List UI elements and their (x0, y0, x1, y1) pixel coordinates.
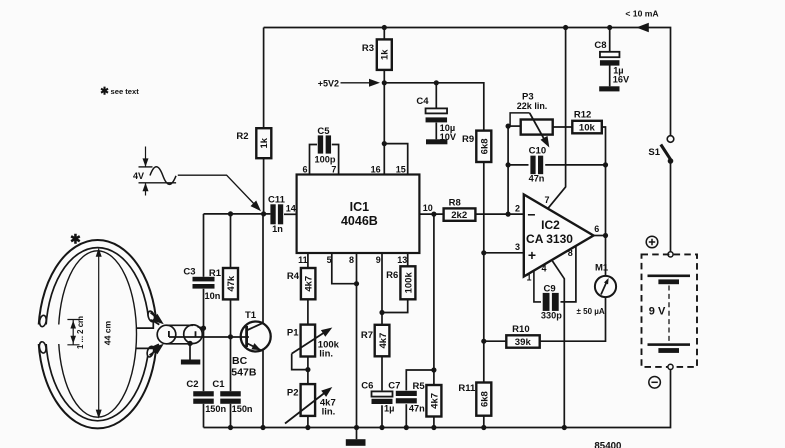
junction R3 rail (382, 25, 387, 30)
svg-text:85400: 85400 (594, 441, 621, 448)
wire C2 to bottom rail (203, 404, 205, 428)
search coil tube inner wall (46, 248, 150, 421)
svg-text:C9: C9 (544, 283, 556, 294)
wire R11 to bottom rail (483, 416, 485, 428)
svg-text:47n: 47n (409, 404, 425, 414)
wire R10 left (484, 340, 507, 342)
svg-text:6: 6 (302, 165, 307, 175)
capacitor C11 (270, 204, 275, 224)
potentiometer P1 (301, 325, 316, 357)
svg-text:1k: 1k (259, 137, 270, 148)
svg-text:3: 3 (515, 242, 520, 252)
coil left upper tube end cap (39, 315, 47, 327)
svg-text:see text: see text (111, 87, 140, 96)
resistor R12 (572, 121, 602, 134)
junction R11 rail (481, 425, 486, 430)
junction P2 rail (305, 425, 310, 430)
cable shield ground stub (189, 343, 191, 359)
capacitor C6 (electrolytic) (372, 391, 393, 396)
capacitor C7 (396, 391, 417, 396)
switch S1 (667, 136, 674, 143)
wire IC1 pin 10 to R8 (419, 213, 443, 215)
svg-text:8: 8 (568, 248, 573, 258)
svg-text:R1: R1 (209, 268, 222, 279)
ground (main) stub (356, 428, 358, 440)
junction pin15/16 tee (382, 141, 387, 146)
svg-text:C10: C10 (529, 145, 546, 156)
svg-text:10k: 10k (579, 123, 596, 134)
capacitor C2 (193, 391, 214, 396)
cable shield to C3 column (198, 327, 204, 328)
IC1 4046B (297, 175, 420, 254)
svg-text:2: 2 (515, 204, 520, 214)
wire R12 right down to output (602, 127, 606, 236)
wire C11 to IC1 pin 14 (284, 213, 297, 215)
node A horizontal wire (C3/R1 top to C11) (204, 213, 271, 215)
capacitor C5 bracket (310, 145, 339, 175)
junction pin3 (481, 250, 486, 255)
junction base node (228, 334, 233, 339)
svg-text:7: 7 (544, 195, 549, 205)
svg-text:150n: 150n (205, 404, 226, 414)
bottom ground rail (204, 427, 670, 429)
junction pin7 rail (563, 25, 568, 30)
wire R9 column down (483, 162, 485, 383)
+5V2 label and arrow (341, 82, 370, 84)
junction pin10 / R5 column (431, 212, 436, 217)
IC1 pin 5 wire (332, 253, 357, 284)
capacitor C4 (electrolytic) (426, 108, 448, 113)
wire C3 to shield node (203, 289, 205, 328)
wire battery to bottom rail (669, 370, 671, 428)
capacitor C3 (193, 277, 215, 282)
svg-text:C8: C8 (594, 40, 606, 51)
svg-text:1 ... 2 cm: 1 ... 2 cm (76, 316, 85, 349)
svg-text:P1: P1 (287, 328, 299, 339)
svg-text:4k7: 4k7 (378, 333, 389, 349)
svg-text:R5: R5 (413, 381, 426, 392)
junction C10 left (506, 162, 511, 167)
resistor R6 (400, 266, 415, 299)
svg-text:6: 6 (594, 224, 599, 234)
junction pin8 rail (354, 425, 359, 430)
svg-text:C7: C7 (388, 381, 400, 392)
svg-text:10: 10 (423, 203, 433, 213)
svg-text:15: 15 (396, 165, 406, 175)
resistor R9 (476, 131, 491, 162)
svg-text:± 50 µA: ± 50 µA (577, 307, 605, 316)
junction R10 left (481, 339, 486, 344)
svg-text:C3: C3 (183, 267, 195, 278)
wire P2 to bottom rail (307, 416, 309, 428)
wire C8 to ground (609, 65, 611, 86)
junction C6 rail (379, 425, 384, 430)
svg-text:C5: C5 (317, 126, 330, 137)
junction C8 rail (607, 25, 612, 30)
wire R2 column top (263, 28, 265, 129)
resistor R8 (444, 208, 476, 220)
junction +5V2 node (382, 80, 387, 85)
cable shield cylinder (167, 325, 194, 344)
svg-text:4k7: 4k7 (430, 393, 441, 409)
svg-text:lin.: lin. (319, 349, 333, 360)
resistor R1 (223, 268, 238, 299)
junction T1 emitter rail (260, 425, 265, 430)
svg-text:4046B: 4046B (341, 214, 378, 228)
svg-text:1: 1 (526, 273, 531, 283)
svg-text:330p: 330p (541, 311, 562, 321)
wire output to meter (605, 236, 607, 277)
svg-text:4k7: 4k7 (304, 276, 315, 292)
svg-text:44 cm: 44 cm (103, 320, 113, 345)
coil left lower tube end cap (39, 341, 47, 353)
svg-text:9 V: 9 V (649, 306, 666, 318)
resistor R3 (377, 39, 392, 70)
svg-text:R2: R2 (236, 131, 248, 142)
junction output node (603, 233, 608, 238)
coil inner winding lower connection (136, 347, 153, 348)
svg-text:4V: 4V (133, 171, 144, 181)
4V waveform annotation (145, 147, 147, 196)
wire P3 column (pin2 up to wiper) (507, 126, 509, 214)
op-amp IC2 triangle (524, 195, 594, 277)
svg-text:14: 14 (286, 203, 296, 213)
svg-text:22k lin.: 22k lin. (517, 101, 548, 111)
coil lower lead into cable (150, 347, 161, 356)
coil inner winding upper connection (136, 320, 153, 329)
coil upper lead into cable (151, 313, 162, 322)
resistor R11 (476, 383, 491, 416)
wire C6 to bottom rail (381, 405, 383, 427)
capacitor C7 branch (406, 370, 434, 390)
resistor R4 (301, 268, 316, 299)
wire pin10 column down to C7/R5 (433, 214, 435, 385)
svg-text:CA 3130: CA 3130 (526, 232, 573, 246)
svg-text:C4: C4 (416, 96, 429, 107)
junction pin9/R6 (379, 310, 384, 315)
svg-text:547B: 547B (231, 367, 257, 379)
ground (cable shield) (181, 360, 200, 365)
svg-text:IC1: IC1 (350, 200, 370, 214)
coil right lower tube end cap (146, 345, 155, 357)
wire C10 right to output column (545, 164, 605, 166)
current arrow < 10 mA (636, 23, 649, 32)
svg-text:+: + (528, 247, 536, 263)
junction P1/P2 (305, 367, 310, 372)
meter M1 (595, 276, 616, 297)
svg-text:39k: 39k (515, 337, 532, 348)
capacitor C9 (543, 293, 550, 311)
svg-text:R6: R6 (386, 270, 398, 281)
ground (C4) (426, 139, 447, 144)
sine wave symbol (150, 167, 176, 185)
search coil outer tube (38, 240, 156, 428)
battery plus terminal symbol (646, 236, 658, 248)
battery minus terminal symbol (649, 377, 661, 389)
potentiometer P3 (508, 125, 521, 127)
dimension 1...2 cm arrow (67, 320, 79, 345)
coil gap right (mask) (141, 317, 162, 351)
wire R1 column (230, 214, 232, 268)
svg-text:✱: ✱ (70, 232, 81, 247)
potentiometer P2 (301, 384, 316, 416)
capacitor C8 wire (609, 28, 611, 52)
svg-text:BC: BC (232, 355, 248, 367)
leader arrow to node A (178, 175, 258, 208)
svg-text:16V: 16V (613, 75, 630, 85)
svg-text:R11: R11 (458, 383, 476, 394)
svg-text:7: 7 (331, 165, 336, 175)
svg-text:11: 11 (298, 255, 308, 265)
wire R3 to +5V2 node and IC1 pin16 (383, 70, 385, 175)
resistor R5 (426, 385, 441, 417)
junction shield ground (187, 341, 192, 346)
junction C1 rail (228, 425, 233, 430)
svg-text:9: 9 (376, 255, 381, 265)
capacitor C5 (318, 135, 323, 153)
svg-text:R3: R3 (362, 43, 374, 54)
wire shield node down to C2 (203, 328, 205, 391)
junction C10/R12 right (603, 162, 608, 167)
IC1 pin 13 wire (407, 253, 409, 266)
wire C1 to bottom rail (230, 404, 232, 428)
svg-text:47n: 47n (529, 173, 545, 183)
svg-text:13: 13 (397, 255, 407, 265)
svg-text:R12: R12 (574, 110, 591, 121)
wire T1 collector up to node A (262, 214, 264, 323)
junction node A (261, 211, 266, 216)
battery open terminal bottom (668, 364, 673, 369)
junction C7/R5 (431, 367, 436, 372)
battery open terminal top (668, 252, 673, 257)
wire R7 to C6 (381, 356, 383, 390)
resistor R2 (256, 128, 271, 158)
battery cell 1 (648, 275, 691, 278)
coil gap left (mask) (30, 325, 63, 345)
wire C10 left (508, 164, 528, 166)
junction pin4 rail (562, 425, 567, 430)
wire C3 column (203, 214, 205, 277)
svg-text:✱: ✱ (100, 86, 109, 98)
battery cell 2 (648, 343, 691, 346)
wire R1 to base node (230, 299, 232, 336)
svg-text:5: 5 (327, 255, 332, 265)
battery 9V dashed box (642, 254, 698, 367)
wire C9 right to pin 8 (561, 246, 576, 302)
svg-text:lin.: lin. (322, 406, 336, 417)
capacitor C8 (electrolytic) (600, 52, 620, 57)
junction pin5/pin8 (354, 281, 359, 286)
svg-text:1n: 1n (272, 224, 283, 234)
ground (C8) (599, 86, 619, 91)
coil lower lead arrow (152, 344, 164, 354)
top supply rail +9V (264, 28, 671, 136)
ground (main) (346, 439, 366, 446)
IC1 pin 9 column (381, 253, 383, 325)
svg-text:−: − (527, 207, 535, 223)
svg-text:6k8: 6k8 (480, 391, 491, 407)
resistor R10 (506, 335, 539, 347)
svg-text:C11: C11 (268, 194, 286, 205)
IC1 pin 8 column (356, 253, 358, 428)
wire pin 1 to C9 (534, 271, 541, 302)
svg-text:P2: P2 (287, 388, 299, 399)
junction C7 rail (404, 425, 409, 430)
svg-text:4: 4 (541, 264, 546, 274)
search coil inner winding (59, 251, 137, 417)
wire tee to IC1 pin 15 (384, 144, 407, 175)
cable inner conductor marks (169, 331, 196, 338)
svg-text:10n: 10n (205, 291, 221, 301)
wire S1 to battery (670, 161, 672, 252)
wire R8 to IC2 pin 2 (475, 213, 523, 215)
svg-text:T1: T1 (245, 310, 257, 321)
svg-text:C2: C2 (186, 379, 198, 390)
svg-text:IC2: IC2 (541, 218, 560, 232)
battery center dashed line (668, 286, 670, 342)
svg-text:C1: C1 (212, 379, 225, 390)
wire +5V2 rail to C4 and R9 (384, 83, 484, 131)
junction R5 rail (431, 425, 436, 430)
IC1 pin 11 wire (307, 253, 309, 268)
svg-text:R4: R4 (287, 271, 300, 282)
wire meter to R10 (540, 297, 606, 341)
svg-text:< 10 mA: < 10 mA (625, 9, 658, 19)
wire pin 3 (484, 252, 524, 254)
capacitor C1 (220, 391, 241, 396)
svg-text:R7: R7 (361, 330, 373, 341)
wire R2 to node A (263, 158, 265, 214)
svg-text:100k: 100k (404, 272, 415, 294)
svg-text:1k: 1k (380, 49, 391, 60)
wire C7 to bottom rail (405, 404, 407, 427)
P1 wiper tie (292, 354, 308, 370)
wire pin 4 down to rail (552, 261, 564, 428)
svg-text:2k2: 2k2 (451, 210, 467, 221)
junction P3 left (506, 124, 511, 129)
wire R4 to P1 (307, 299, 309, 324)
svg-text:C6: C6 (361, 381, 373, 392)
coil right upper tube end cap (147, 310, 156, 322)
capacitor C4 wire (435, 83, 437, 109)
resistor R3 top wire (383, 28, 385, 40)
capacitor C10 (530, 156, 535, 175)
wire R5 to bottom rail (433, 417, 435, 428)
wire P3 right to R12 (553, 126, 573, 128)
svg-text:R9: R9 (462, 134, 474, 145)
resistor R7 (375, 325, 390, 357)
svg-text:R10: R10 (512, 324, 529, 335)
svg-text:8: 8 (349, 255, 354, 265)
svg-text:100p: 100p (315, 154, 336, 164)
svg-text:16: 16 (371, 165, 381, 175)
svg-text:+5V2: +5V2 (318, 78, 339, 88)
dimension 44 cm arrow (98, 250, 100, 418)
wire IC2 output (594, 235, 606, 237)
svg-text:6k8: 6k8 (480, 138, 491, 154)
wire C4 to ground (435, 123, 437, 140)
wire T1 emitter to bottom rail (262, 351, 264, 428)
coil upper lead arrow (152, 314, 164, 324)
wire P1 to P2 (307, 357, 309, 385)
junction shield / C3 (201, 326, 206, 331)
junction R1 top (228, 211, 233, 216)
junction pin2 / P3 column (506, 212, 511, 217)
cable center conductor to base (169, 336, 249, 338)
junction C4 top (434, 80, 439, 85)
svg-text:M1: M1 (595, 263, 609, 274)
svg-text:1µ: 1µ (384, 404, 394, 414)
wire R6 to pin9 junction (382, 299, 408, 312)
svg-text:47k: 47k (226, 275, 237, 292)
wire +9V to IC2 pin 7 (548, 28, 566, 209)
svg-text:R8: R8 (449, 197, 461, 208)
svg-text:S1: S1 (648, 147, 660, 158)
transistor T1 (241, 322, 271, 352)
svg-text:150n: 150n (232, 404, 253, 414)
wire C1 column (230, 337, 232, 391)
